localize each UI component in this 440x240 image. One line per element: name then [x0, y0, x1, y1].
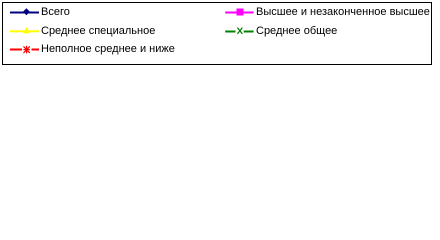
marker: navy diamond — [23, 8, 30, 15]
legend frame — [3, 3, 432, 65]
series line: Высшее и незаконченное высшее (magenta) — [225, 12, 253, 14]
label: Среднее общее — [256, 25, 337, 38]
series line: Среднее общее (green) — [225, 31, 253, 33]
label: Всего — [41, 6, 70, 19]
series line: Неполное среднее и ниже (red) — [10, 49, 39, 51]
marker: magenta square — [237, 9, 244, 16]
marker background gap (white) for star marker — [22, 46, 32, 54]
label: Высшее и незаконченное высшее — [256, 6, 430, 19]
label: Неполное среднее и ниже — [41, 43, 175, 56]
chart legend box border — [0, 0, 440, 67]
marker background gap (white) for X marker — [236, 28, 244, 35]
series line: Среднее специальное (yellow) — [10, 30, 39, 32]
marker: yellow triangle — [23, 27, 30, 34]
label: Среднее специальное — [41, 25, 155, 38]
marker: red star/asterisk — [26, 46, 28, 54]
marker: green X — [237, 28, 242, 34]
series line: Всего (navy) — [10, 12, 39, 14]
